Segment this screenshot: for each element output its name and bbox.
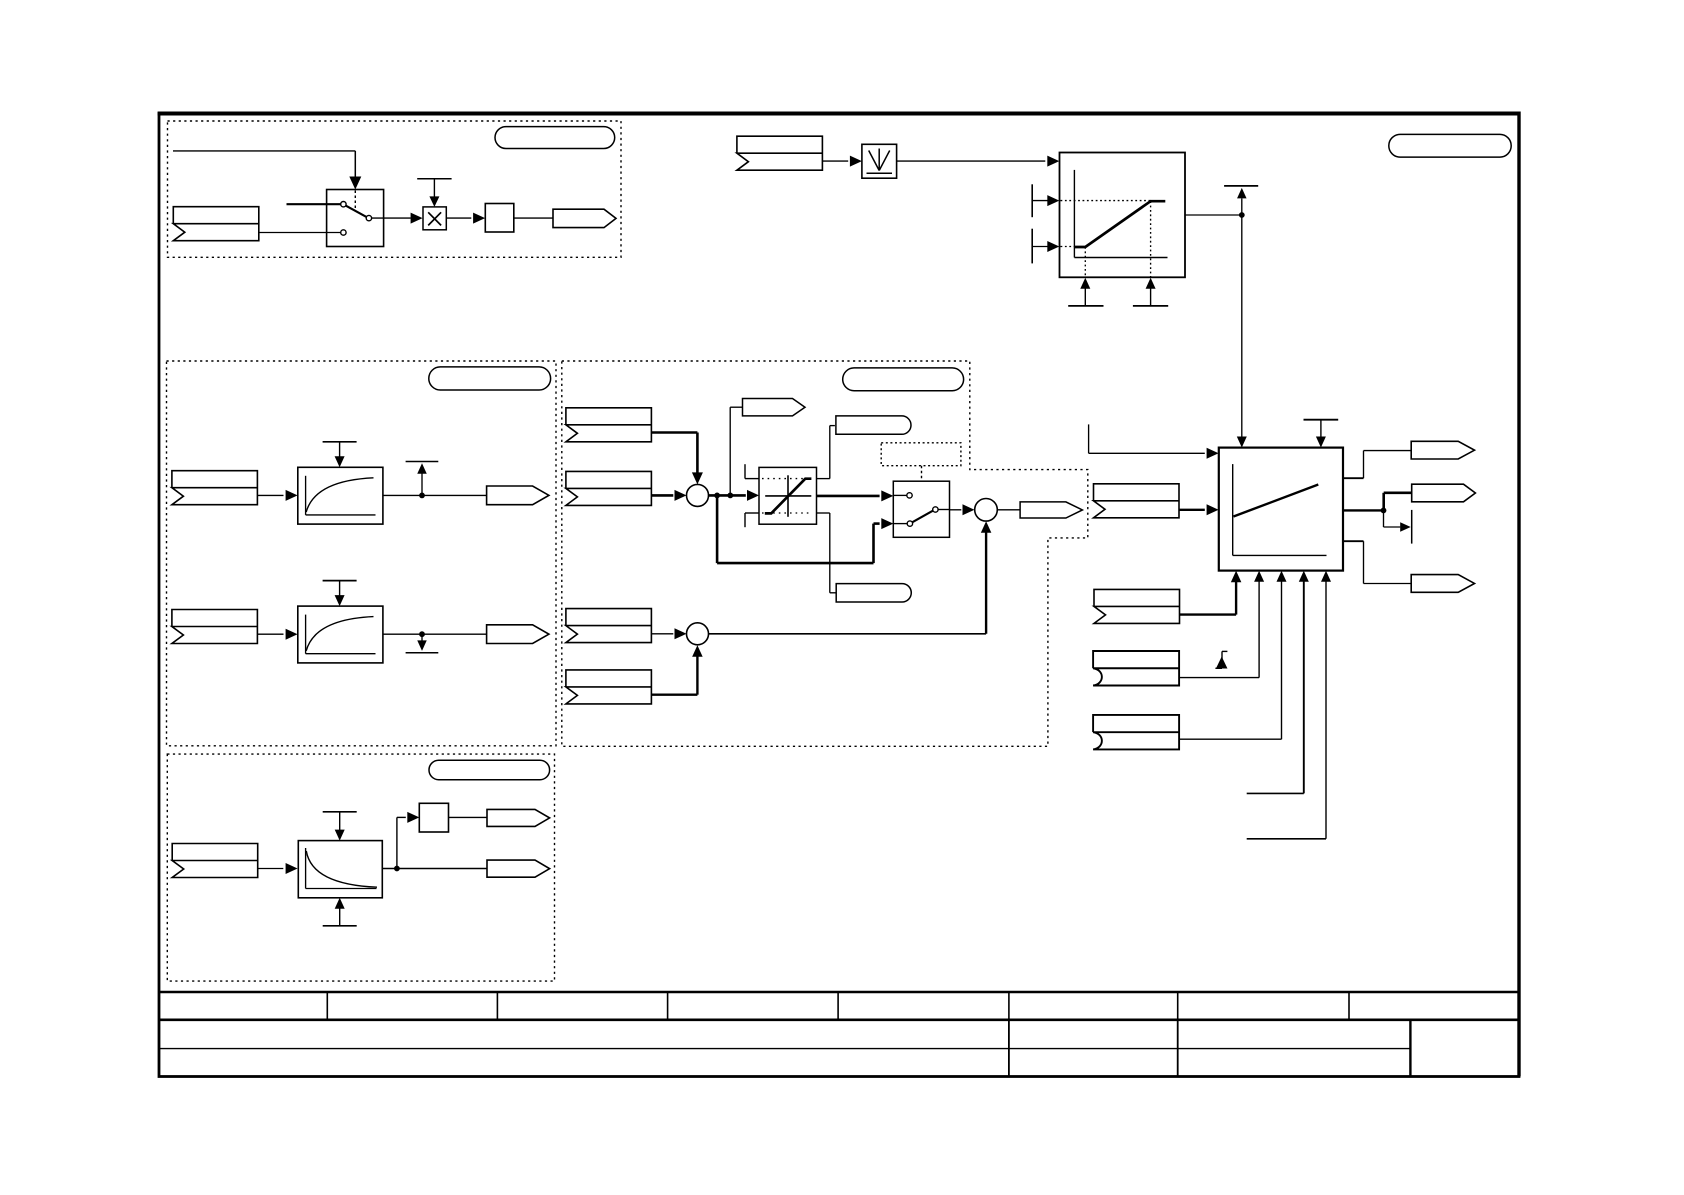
wire block out top	[1343, 477, 1364, 479]
switch S2 upper contact	[907, 493, 912, 498]
pt1 B curve	[306, 617, 373, 651]
stub wire into switch upper input	[287, 203, 341, 205]
wire banner3 to pt1	[257, 494, 283, 496]
output connector flag-up	[743, 399, 806, 416]
switch S2 output contact	[933, 507, 938, 512]
pt1 A curve	[306, 478, 373, 512]
wire out mid to flag	[1382, 493, 1385, 512]
ramp dotted vert right	[1150, 201, 1152, 277]
junction dot pt1d	[394, 866, 400, 872]
wire to reached-marker	[1383, 510, 1385, 527]
ramp bottom param up-arrow 1	[1068, 305, 1103, 307]
wire banner6 to sum1	[651, 494, 673, 497]
dashed selector line	[354, 191, 356, 210]
T-bar param multiplier	[417, 178, 451, 180]
pt1 A axes	[305, 476, 307, 515]
wire limiter upper out to pill1	[817, 478, 830, 480]
limiter dotted clips	[762, 478, 812, 480]
pt1 filter box B	[298, 606, 383, 663]
wire up to inverter	[396, 817, 398, 868]
switch S2 stub upper	[893, 494, 907, 496]
output connector droop-a	[487, 809, 550, 826]
wire ramp output	[1185, 214, 1242, 216]
ramp graph y-axis	[1073, 170, 1075, 258]
wire b12 to block	[1179, 738, 1281, 740]
wire to upper flag	[729, 407, 731, 495]
reached-marker tick	[1411, 510, 1413, 544]
arrow into limiter	[747, 490, 759, 501]
input banner b12	[1093, 715, 1179, 750]
pt1d time param top	[323, 811, 357, 813]
wire pt1 B output	[383, 633, 487, 635]
junction dot loop	[714, 493, 720, 499]
switch S2 lower contact	[907, 521, 912, 526]
ramp bottom param up-arrow 2	[1133, 305, 1168, 307]
wire ramp output down to block	[1241, 215, 1243, 437]
dotted param box	[881, 443, 961, 466]
wire multiplier to scaler	[446, 217, 471, 219]
junction dot ramp output	[1239, 212, 1245, 218]
loop wire to switch2 lower	[716, 495, 719, 563]
summing circle 2	[975, 499, 998, 522]
dashed drop to switch2	[921, 466, 923, 482]
title block top line	[159, 991, 1519, 994]
arrow into switch top	[349, 177, 361, 190]
pt1d curve	[306, 851, 377, 887]
ramp output up-arrow tbar	[1224, 185, 1258, 187]
junction dot out mid	[1381, 508, 1387, 514]
switch S1 box	[327, 190, 384, 247]
wire sum3 to sum2	[709, 633, 987, 635]
input banner src8	[566, 670, 652, 704]
wire block out mid	[1343, 509, 1384, 511]
pt1 filter box A	[298, 467, 383, 524]
down arrow marker B	[406, 652, 439, 654]
rounded label pill1	[836, 416, 911, 434]
dashed group box (setpoint sum)	[562, 361, 1088, 746]
stadium label (setpoint sum)	[843, 368, 964, 391]
junction dot flagline	[727, 493, 733, 499]
arrow into block top 1	[1237, 437, 1247, 448]
switch S2 lever	[912, 511, 933, 523]
inverter box	[419, 803, 448, 832]
output connector setpoint	[1020, 502, 1082, 518]
T-bar top param	[1304, 419, 1339, 421]
wire pt1 A output	[383, 494, 487, 496]
wire inverter to flag	[449, 816, 488, 818]
output connector r-smooth A	[487, 486, 549, 505]
output connector out-mid	[1412, 484, 1476, 502]
switch S2 box	[893, 481, 949, 537]
wire banner-main to block	[1179, 509, 1205, 511]
wire banner7 to sum3	[651, 633, 673, 635]
outer frame border	[159, 114, 1519, 1077]
summing circle 3	[687, 623, 709, 645]
input banner src13	[172, 844, 258, 878]
main setpoint block	[1219, 448, 1343, 571]
stadium label (smoothing)	[429, 367, 551, 390]
input banner src6	[566, 471, 652, 505]
wire banner8 to sum3	[651, 694, 697, 696]
limiter axes	[787, 475, 789, 517]
dashed group box (droop)	[167, 754, 554, 981]
multiplier box	[423, 207, 446, 230]
switch S1 lever	[346, 206, 367, 217]
ramp param input 2	[1031, 229, 1033, 264]
wire b11 to block	[1179, 677, 1259, 679]
wire upper input to block	[1088, 424, 1090, 453]
title block row1 bottom line (thick)	[159, 1018, 1519, 1021]
rounded label pill2	[836, 584, 911, 602]
step icon	[1221, 651, 1223, 668]
pt1d time param bottom	[323, 925, 357, 927]
ramp dotted upper	[1061, 200, 1151, 202]
pt1 B axes	[305, 615, 307, 654]
output connector out-top	[1411, 441, 1474, 459]
pt1 decay box	[298, 841, 382, 898]
ramp graph x-axis	[1074, 257, 1167, 259]
limiter curve	[765, 479, 812, 514]
wire banner to switch lower input	[259, 232, 341, 234]
ramp dotted lower-left	[1061, 246, 1075, 248]
title block lower verticals	[1008, 1020, 1010, 1077]
output connector out-bottom	[1411, 575, 1474, 593]
switch S1 lower contact	[341, 230, 346, 235]
frame top edge (thick)	[158, 112, 1521, 116]
wire vmin to ramp block	[897, 160, 1046, 162]
input banner src5	[566, 408, 652, 442]
block x-axis	[1233, 554, 1327, 556]
v-min icon	[878, 149, 880, 171]
input banner src2	[737, 136, 823, 170]
stadium label (top-right)	[1389, 134, 1511, 157]
wire banner13 to pt1d	[258, 868, 284, 870]
wire switch to multiplier	[372, 217, 411, 219]
switch S1 upper contact	[341, 202, 346, 207]
switch S1 output contact	[366, 215, 371, 220]
wire block out bottom	[1343, 540, 1364, 542]
wire scaler to output	[514, 217, 553, 219]
pt1 A time param	[323, 441, 357, 443]
limiter upper tick	[744, 464, 746, 478]
pt1 B time param	[323, 580, 357, 582]
multiplier X	[428, 212, 441, 225]
frame right edge (thick)	[1517, 112, 1520, 1077]
wire banner5 to sum1	[651, 431, 697, 434]
input banner src3	[172, 471, 258, 505]
output connector droop-b	[487, 860, 550, 877]
ramp curve	[1074, 201, 1165, 247]
switch S2 stub lower	[893, 523, 907, 525]
stub wire 4 to block	[1247, 792, 1304, 794]
pt1d axes	[305, 848, 307, 889]
scaling box	[485, 204, 514, 233]
wire switch2 to sum2	[938, 509, 949, 511]
input banner src1	[173, 207, 258, 241]
limiter box	[759, 467, 817, 524]
input banner src7	[566, 609, 652, 643]
wire limiter main out	[817, 495, 880, 498]
title block row2/3 divider	[159, 1048, 1410, 1050]
up arrow marker A	[406, 461, 439, 463]
title block header cell dividers	[326, 992, 328, 1020]
stub wire 5 to block	[1247, 838, 1326, 840]
ramp param input 1	[1031, 184, 1033, 217]
input banner b11	[1093, 651, 1179, 686]
input banner b10	[1094, 589, 1180, 623]
wire sum2 output	[997, 509, 1020, 511]
wire banner2 to vmin block	[822, 160, 848, 162]
stadium label (top-left group)	[495, 127, 615, 149]
dashed group box (smoothing)	[167, 361, 557, 746]
ramp limiter block	[1060, 153, 1186, 278]
junction dot pt1 B	[419, 631, 425, 637]
wire banner4 to pt1	[257, 633, 283, 635]
dashed group box (channel 1)	[168, 121, 622, 257]
output connector r-param 1	[553, 209, 616, 227]
block diagonal	[1234, 485, 1319, 517]
wire b10 to block	[1179, 613, 1236, 615]
summing circle 1	[687, 484, 709, 506]
wire select-signal top	[173, 150, 355, 152]
junction dot pt1 A	[419, 493, 425, 499]
limiter lower tick	[744, 513, 746, 527]
stadium label (droop)	[429, 760, 550, 780]
v-min block	[862, 144, 897, 178]
wire pt1d output	[382, 868, 487, 870]
ramp dotted vert left	[1084, 247, 1086, 277]
block y-axis	[1232, 464, 1234, 555]
output connector r-smooth B	[487, 625, 549, 644]
wire limiter lower out to pill2	[817, 512, 830, 514]
input banner main	[1094, 484, 1180, 518]
wire sum1 output	[709, 494, 746, 497]
input banner src4	[172, 610, 258, 644]
